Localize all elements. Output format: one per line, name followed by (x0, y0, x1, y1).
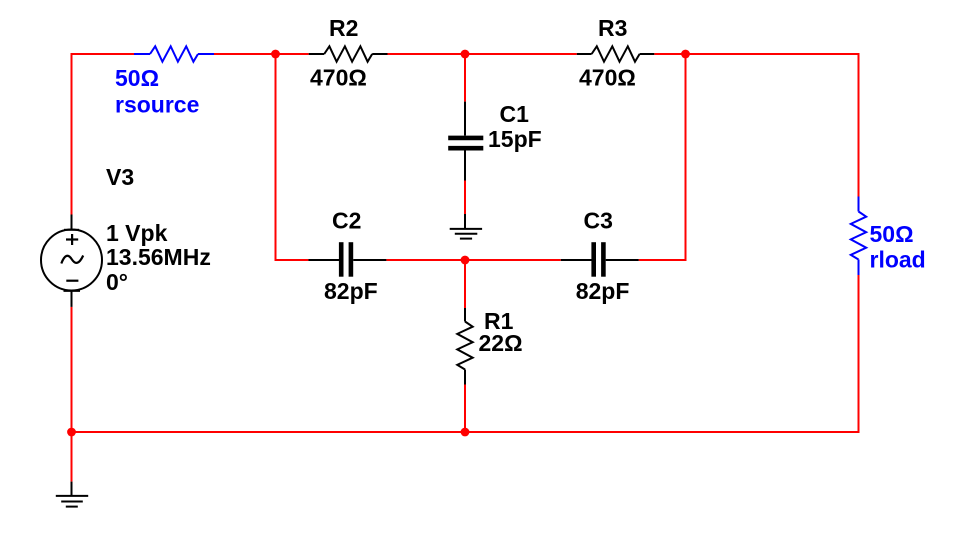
svg-text:V3: V3 (106, 164, 134, 190)
resistor rload (vertical, blue) (851, 197, 866, 276)
svg-text:470Ω: 470Ω (310, 65, 367, 91)
source plus sign (66, 234, 78, 245)
svg-text:22Ω: 22Ω (479, 330, 523, 356)
svg-text:0°: 0° (106, 269, 128, 295)
source V3 leads (64, 215, 81, 307)
svg-text:82pF: 82pF (324, 278, 378, 304)
wire top-left vertical (source to top rail) (72, 54, 135, 215)
junction node bottom R1 (461, 428, 470, 437)
junction node rsource/R2 (271, 50, 280, 59)
resistor R1 (vertical) (457, 308, 472, 385)
svg-text:1 Vpk: 1 Vpk (106, 220, 168, 246)
svg-text:R2: R2 (329, 15, 358, 41)
wire C1 branch to ground (464, 181, 466, 215)
svg-text:50Ω: 50Ω (870, 221, 914, 247)
svg-text:13.56MHz: 13.56MHz (106, 244, 211, 270)
wire C1 branch top (464, 54, 466, 102)
svg-text:rload: rload (870, 247, 926, 273)
svg-text:C1: C1 (500, 101, 530, 127)
capacitor C1 (vertical) (448, 102, 483, 181)
svg-text:82pF: 82pF (576, 278, 630, 304)
wire left loop vertical from node to middle rail (276, 54, 309, 260)
junction node R3 output (681, 50, 690, 59)
wire source bottom to ground (71, 307, 73, 482)
ground under C1 (450, 214, 482, 239)
junction node bottom-left (67, 428, 76, 437)
junction node middle R1 (461, 256, 470, 265)
wire R1 branch bottom (464, 385, 466, 433)
wire bottom rail (71, 431, 859, 433)
resistor R2 (309, 46, 388, 61)
wire middle rail C3 to right loop vertical (639, 54, 686, 260)
wire right vertical below rload (858, 275, 860, 433)
svg-text:15pF: 15pF (488, 126, 542, 152)
wire R1 branch top (464, 260, 466, 308)
capacitor C2 (horizontal) (308, 242, 386, 277)
resistor rsource (blue) (134, 46, 214, 61)
source V3 circle (41, 230, 102, 291)
resistor R3 (577, 46, 655, 61)
source sine symbol (61, 256, 83, 264)
junction node top C1 (461, 50, 470, 59)
wire top rail segment R2 to R3 (388, 53, 577, 55)
svg-text:50Ω: 50Ω (115, 65, 159, 91)
capacitor C3 (horizontal) (561, 242, 639, 277)
wire top rail segment R3 to right corner (654, 54, 858, 197)
svg-text:470Ω: 470Ω (579, 65, 636, 91)
svg-text:C2: C2 (332, 208, 361, 234)
svg-text:C3: C3 (584, 208, 613, 234)
wire top rail segment rsource to R2 (214, 53, 309, 55)
source minus sign (66, 280, 78, 282)
wire middle rail C2 to C3 (386, 259, 560, 261)
svg-text:R3: R3 (598, 15, 627, 41)
svg-text:rsource: rsource (115, 92, 199, 118)
ground bottom-left (56, 482, 88, 507)
